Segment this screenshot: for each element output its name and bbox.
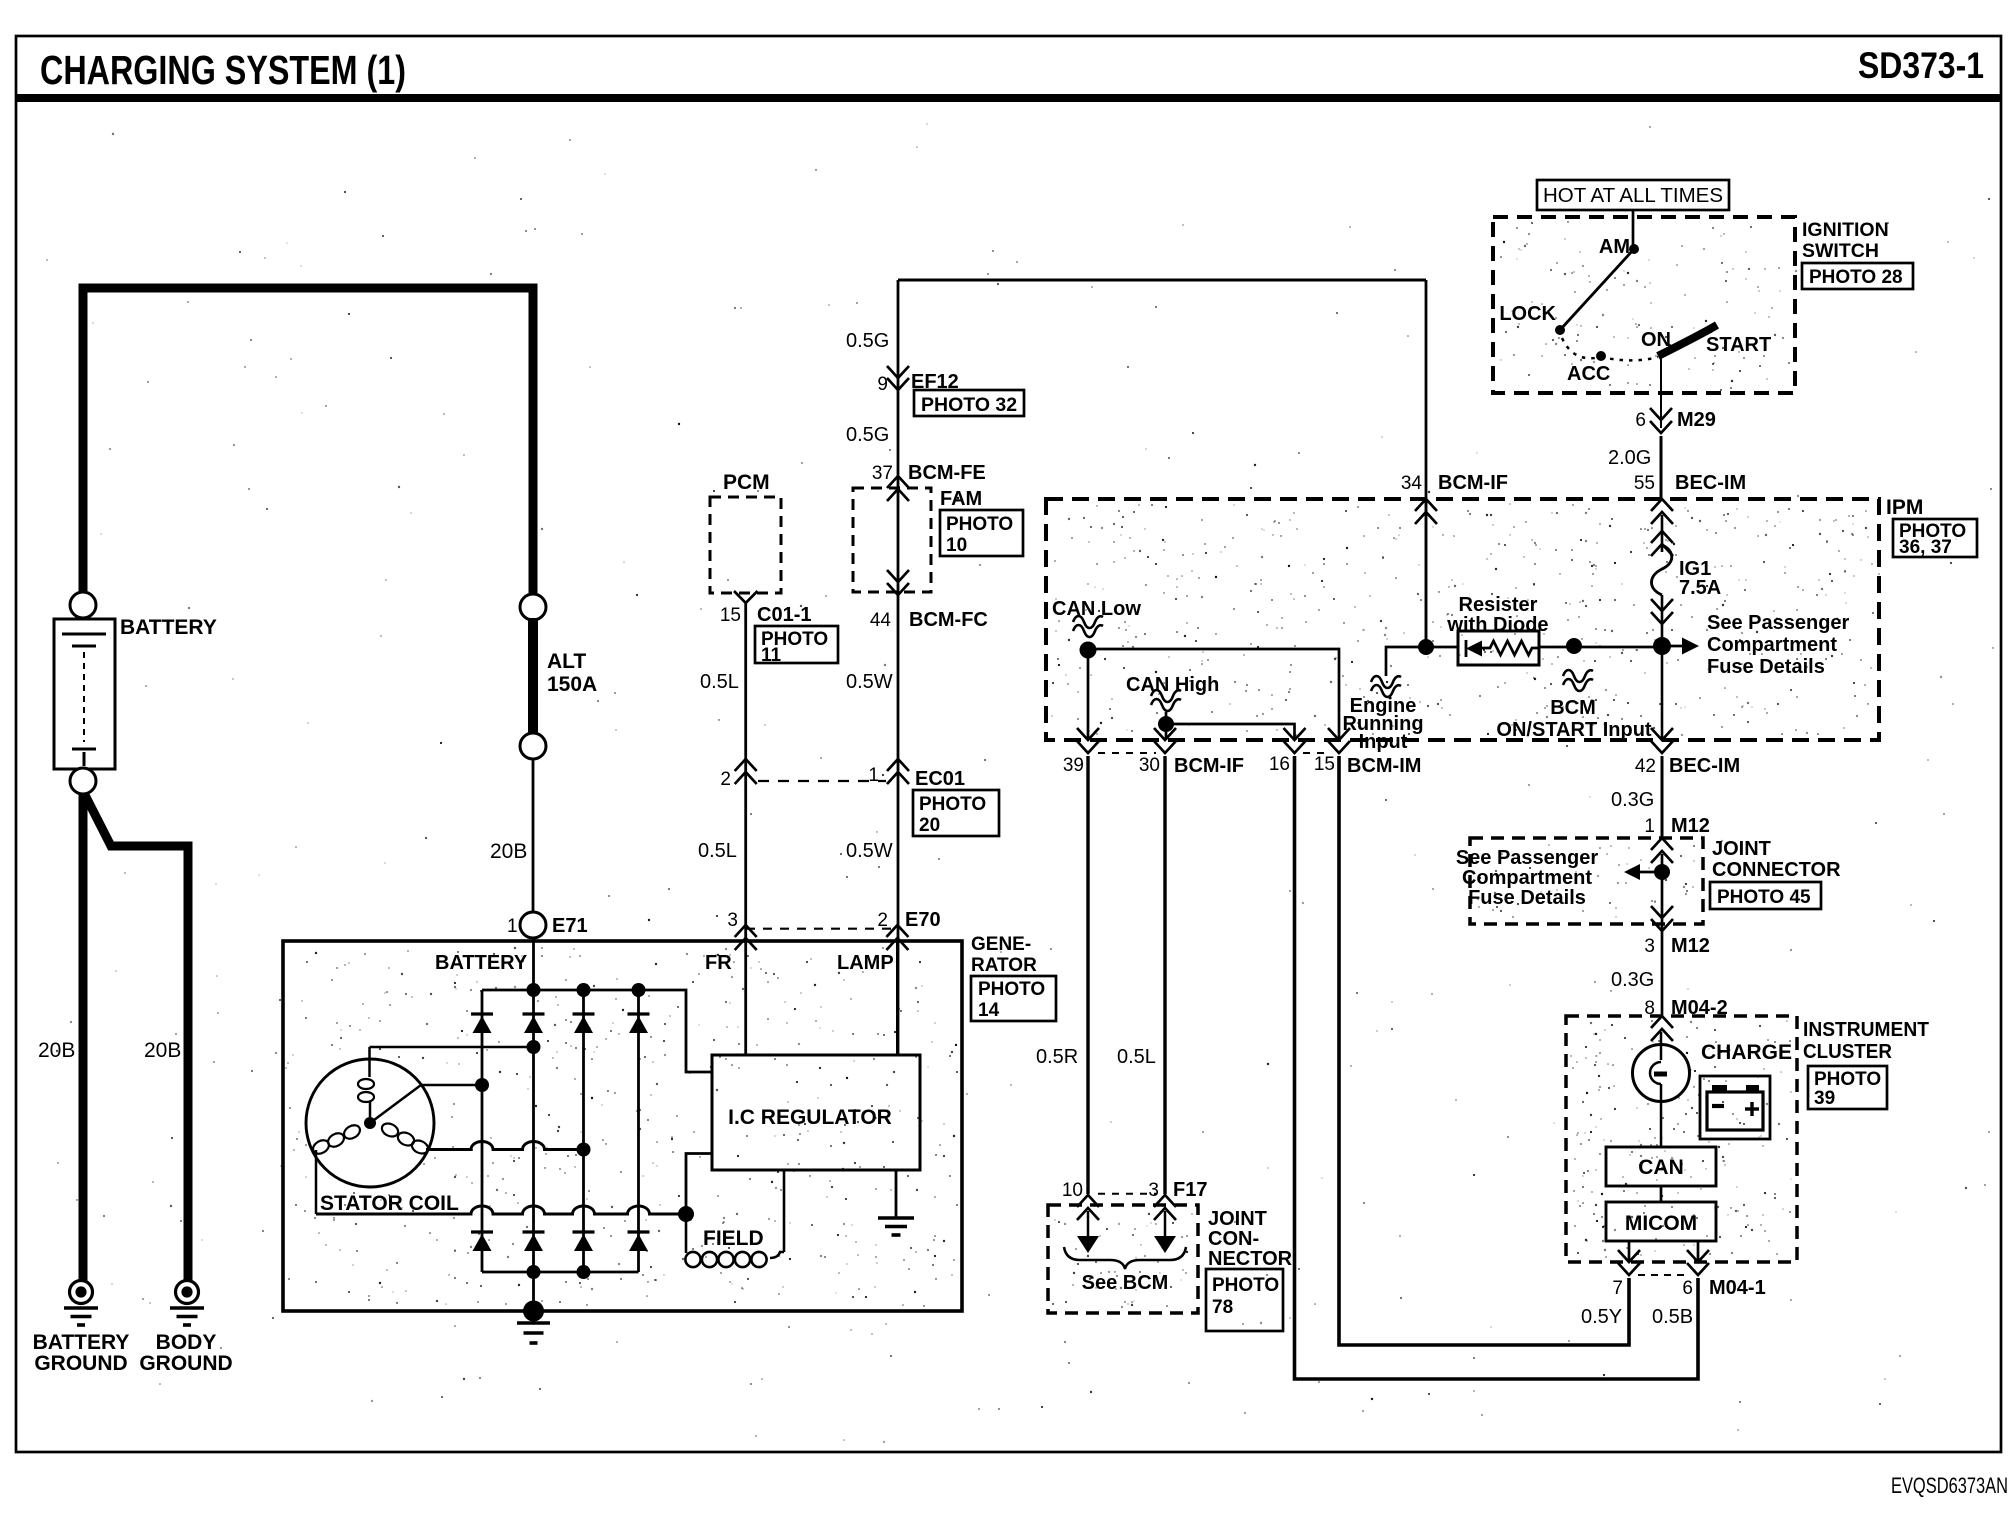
svg-text:FAM: FAM [940,488,982,510]
svg-text:CAN High: CAN High [1126,674,1219,696]
wire CAN High to pin16 [1166,724,1295,740]
svg-text:7.5A: 7.5A [1679,577,1721,599]
power label HOT AT ALL TIMES [1537,180,1729,210]
wire body ground branch [85,795,188,1281]
svg-text:BATTERY: BATTERY [120,616,217,639]
svg-text:0.5W: 0.5W [846,671,893,693]
wire rectifier col1 [481,990,484,1272]
svg-text:START: START [1706,334,1771,356]
inductor FIELD [685,1214,688,1253]
connector IG1 out arrows [1651,599,1673,611]
wire rectifier bottom bus [482,1271,639,1274]
diode D6 [523,1230,545,1233]
wire IG1 to node [1661,595,1664,740]
wire ALT to E71 20B [532,759,535,912]
wire stator phase V [421,1084,482,1087]
connector M04-1 pin6 arrows [1687,1250,1709,1262]
svg-text:6: 6 [1682,1278,1693,1299]
wire 0.5G/0.5W main [897,280,900,1055]
wire CAN Low drop [1087,644,1090,740]
photo box PHOTO 20 [913,790,999,836]
svg-text:ALT: ALT [547,650,586,673]
photo box PHOTO 39 [1808,1066,1887,1109]
wire regulator field sense [686,1154,712,1215]
svg-text:SWITCH: SWITCH [1802,240,1879,262]
svg-text:39: 39 [1814,1088,1835,1109]
wire resistor to node [1539,646,1662,649]
svg-text:CLUSTER: CLUSTER [1803,1041,1893,1063]
arrow see bcm left [1087,1211,1090,1237]
svg-text:C01-1: C01-1 [757,604,811,626]
arrow M12 to fuse details [1640,871,1662,874]
svg-text:BEC-IM: BEC-IM [1675,472,1746,494]
connector EC01 arrows right [887,759,909,771]
junction top bus c2 [527,983,541,997]
arrow see bcm right [1164,1211,1167,1237]
svg-text:M12: M12 [1671,935,1710,957]
connector EC01 arrows left [735,759,757,771]
generator ground junction [523,1301,544,1322]
diode D8 [628,1230,650,1233]
stator neutral dot [364,1117,376,1129]
regulator ground [895,1170,898,1217]
svg-text:0.5B: 0.5B [1652,1306,1693,1328]
svg-text:0.5G: 0.5G [846,424,889,446]
junction bottom bus c2 [527,1265,541,1279]
svg-text:GENE-: GENE- [971,934,1031,955]
svg-text:Fuse Details: Fuse Details [1707,656,1825,678]
svg-text:Fuse Details: Fuse Details [1468,887,1586,909]
svg-text:Compartment: Compartment [1707,634,1837,656]
svg-text:16: 16 [1269,754,1290,775]
photo box PHOTO 32 [914,390,1024,416]
svg-text:7: 7 [1612,1278,1623,1299]
svg-text:3: 3 [727,910,738,931]
svg-text:1: 1 [1644,816,1655,837]
switch arc LOCK-ACC-ON [1562,338,1658,360]
svg-text:CON-: CON- [1208,1228,1259,1250]
connector BCM-IF 34 arrows [1415,499,1437,511]
svg-text:150A: 150A [547,673,597,696]
resistor zigzag [1482,641,1539,655]
wire stator phase U [370,1046,534,1049]
lamp CHARGE [1633,1045,1690,1102]
connector BEC-IM 55 arrows [1651,499,1673,511]
svg-text:CAN Low: CAN Low [1052,598,1141,620]
svg-text:NECTOR: NECTOR [1208,1248,1293,1270]
wire 0.5Y run [1339,756,1629,1345]
svg-text:3: 3 [1148,1180,1159,1201]
svg-text:E71: E71 [552,915,588,937]
svg-text:M12: M12 [1671,815,1710,837]
module INSTRUMENT CLUSTER box [1566,1016,1797,1262]
resistor-with-diode box [1458,631,1539,665]
svg-text:E70: E70 [905,909,941,931]
svg-text:20B: 20B [144,1039,181,1062]
svg-text:30: 30 [1139,755,1160,776]
wire 0.5L drop [1163,756,1166,1194]
wire hot feed [1632,210,1635,247]
diode D4 [628,1012,650,1015]
svg-text:See Passenger: See Passenger [1707,612,1850,634]
dashed link pins 16-15 [1303,752,1330,754]
wire FR internal [744,941,747,1055]
connector M04-1 pin7 arrows [1618,1250,1640,1262]
svg-text:42: 42 [1635,756,1656,777]
battery plate long [62,633,106,636]
stator coil U [368,1047,371,1077]
svg-text:AM: AM [1599,236,1630,258]
connector C01-1 pin 15 V [734,591,758,603]
wire top link [898,279,1426,282]
wire rectifier col4 [637,990,640,1272]
wire stator phase W hops [316,1206,686,1214]
svg-text:BCM: BCM [1550,697,1596,719]
dashed link M04-1 [1638,1274,1689,1276]
photo box PHOTO 11 [755,626,838,663]
svg-text:PHOTO: PHOTO [946,514,1013,535]
svg-text:See Passenger: See Passenger [1456,847,1599,869]
wire battery ground drop [79,794,88,1281]
svg-text:IGNITION: IGNITION [1802,219,1889,241]
svg-text:15: 15 [720,605,741,626]
module IPM box [1046,499,1879,740]
wire MICOM out 7 [1628,1241,1631,1262]
svg-text:BATTERY: BATTERY [33,1331,130,1354]
wire stator phase V diag [370,1085,421,1123]
svg-text:PHOTO 32: PHOTO 32 [921,394,1017,416]
svg-text:9: 9 [877,374,888,395]
net Engine Running Input [1371,676,1401,688]
photo box PHOTO 78 [1206,1269,1283,1331]
wire MICOM out 6 [1697,1241,1700,1262]
svg-text:BODY: BODY [156,1331,217,1354]
block MICOM [1606,1202,1716,1241]
svg-text:M29: M29 [1677,409,1716,431]
svg-text:20: 20 [919,815,940,836]
brace see bcm [1064,1247,1186,1269]
svg-text:BCM-FE: BCM-FE [908,462,986,484]
module PCM box [710,497,781,593]
svg-text:3: 3 [1644,936,1655,957]
svg-text:1: 1 [507,916,518,937]
photo box PHOTO 28 [1802,263,1913,289]
svg-text:78: 78 [1212,1297,1233,1318]
diode D7 [573,1230,595,1233]
svg-text:55: 55 [1634,473,1655,494]
svg-text:FR: FR [705,952,732,974]
svg-text:GROUND: GROUND [34,1352,127,1375]
svg-text:37: 37 [872,463,893,484]
svg-text:GROUND: GROUND [139,1352,232,1375]
node AM [1629,244,1639,254]
joint connector See BCM box [1048,1205,1198,1313]
photo box PHOTO 36 37 [1893,519,1977,557]
svg-text:BCM-FC: BCM-FC [909,609,988,631]
wire 0.5B run [1295,756,1699,1379]
wire IG1 feed [1661,515,1664,552]
arrow to fuse details [1662,645,1682,648]
body ground symbol [176,1281,199,1304]
svg-text:CONNECTOR: CONNECTOR [1712,859,1841,881]
joint connector M12 box [1470,838,1703,924]
wire stator phase W drop [315,1150,318,1214]
svg-text:PCM: PCM [723,471,770,494]
svg-text:CHARGING SYSTEM (1): CHARGING SYSTEM (1) [40,47,406,93]
svg-text:BEC-IM: BEC-IM [1669,755,1740,777]
svg-text:10: 10 [946,535,967,556]
svg-text:2.0G: 2.0G [1608,447,1651,469]
svg-text:36, 37: 36, 37 [1899,537,1952,558]
svg-text:M04-1: M04-1 [1709,1277,1766,1299]
wire CAN to MICOM [1660,1186,1663,1202]
diode D1 [471,1012,493,1015]
svg-text:ACC: ACC [1567,363,1610,385]
svg-text:0.5Y: 0.5Y [1581,1306,1622,1328]
svg-text:15: 15 [1314,754,1335,775]
wire BCM-IF 34 inside [1425,499,1428,647]
wire dashed E70 link [746,928,897,930]
wire 0.5L PCM-to-generator [744,603,747,941]
connector pin30 arrows [1154,728,1176,740]
connector E70 pin3 arrows [735,925,757,937]
junction top bus c3 [577,983,591,997]
connector F17 pin3 arrows [1154,1195,1176,1207]
connector E71 [520,912,546,938]
connector EF12 arrows [887,366,909,378]
svg-text:HOT AT ALL TIMES: HOT AT ALL TIMES [1543,184,1723,207]
svg-text:CHARGE: CHARGE [1701,1041,1792,1064]
wire stator phase V2 hops [426,1142,584,1150]
svg-text:Compartment: Compartment [1462,867,1592,889]
fuse ALT 150A bottom terminal [520,733,546,759]
svg-text:F17: F17 [1173,1179,1207,1201]
connector BCM-FC arrows down [887,570,909,582]
svg-text:0.5L: 0.5L [698,840,737,862]
svg-text:39: 39 [1063,755,1084,776]
stator coil V loops [380,1121,400,1139]
wire 0.5R drop [1086,756,1089,1194]
node LOCK [1555,325,1565,335]
svg-text:with Diode: with Diode [1446,614,1548,636]
battery BATTERY [54,619,115,769]
svg-text:FIELD: FIELD [703,1227,764,1250]
svg-text:34: 34 [1401,473,1423,494]
svg-text:JOINT: JOINT [1208,1208,1267,1230]
wire node to resistor [1426,646,1458,649]
battery center dashed [83,652,85,742]
junction BCM node [1653,637,1671,655]
svg-text:See BCM: See BCM [1082,1272,1169,1294]
op-box I.C REGULATOR [712,1055,920,1170]
svg-text:MICOM: MICOM [1625,1212,1697,1235]
svg-text:ON/START Input: ON/START Input [1496,719,1651,741]
svg-text:LAMP: LAMP [837,952,894,974]
connector M29 arrows [1650,408,1672,420]
wire M12 internal [1661,854,1664,1016]
wire 2.0G [1660,436,1663,499]
svg-text:10: 10 [1062,1180,1083,1201]
generator ground [532,1311,535,1321]
connector BCM-FE arrows up [887,476,909,488]
connector IG1 in arrows [1651,531,1673,543]
dashed link pins 39-30 [1098,752,1156,754]
svg-text:BATTERY: BATTERY [435,952,528,974]
wire dashed EC01 link [758,780,886,782]
fuse ALT 150A body [528,618,538,735]
fuse ALT 150A top terminal [520,594,546,620]
svg-text:LOCK: LOCK [1499,303,1556,325]
svg-text:STATOR COIL: STATOR COIL [320,1192,459,1215]
svg-text:0.3G: 0.3G [1611,789,1654,811]
diode D5 [471,1230,493,1233]
junction field node [678,1206,694,1222]
wire engine running stub [1386,647,1426,676]
wire BEC-IM to M12 [1661,756,1664,838]
wire rectifier col3 [582,990,585,1272]
svg-text:IPM: IPM [1886,496,1923,519]
connector pin16 arrows [1284,728,1306,740]
wire CAN High drop [1165,712,1168,740]
block CAN [1606,1147,1716,1186]
svg-text:PHOTO: PHOTO [978,979,1045,1000]
svg-text:0.5W: 0.5W [846,840,893,862]
switch blade AM-LOCK [1560,249,1634,330]
svg-text:0.5L: 0.5L [700,671,739,693]
fuse IG1 7.5A [1652,545,1672,595]
node ACC [1596,351,1606,361]
svg-text:RATOR: RATOR [971,955,1037,976]
svg-text:0.5R: 0.5R [1036,1046,1078,1068]
svg-text:0.3G: 0.3G [1611,969,1654,991]
wire rectifier top bus [482,990,712,1072]
dashed link F17 [1098,1193,1156,1195]
module FAM box [853,488,931,592]
junction phase V2 [577,1143,591,1157]
battery plate bottom [72,748,96,751]
svg-text:BCM-IF: BCM-IF [1174,755,1244,777]
svg-text:PHOTO: PHOTO [919,794,986,815]
photo box PHOTO 45 [1710,882,1821,909]
svg-text:BCM-IF: BCM-IF [1438,472,1508,494]
battery telltale icon [1700,1076,1770,1139]
title rule [16,94,2001,102]
diode D3 [573,1012,595,1015]
photo box PHOTO 10 [940,510,1023,556]
svg-text:Resister: Resister [1459,594,1538,616]
stator circle [306,1059,434,1187]
junction CAN Low [1080,642,1097,659]
connector M12-3 arrows [1651,906,1673,918]
svg-text:11: 11 [761,645,782,666]
svg-text:INSTRUMENT: INSTRUMENT [1803,1019,1929,1041]
svg-text:20B: 20B [38,1039,75,1062]
svg-text:14: 14 [978,1000,1000,1021]
svg-text:SD373-1: SD373-1 [1858,45,1984,86]
svg-text:CAN: CAN [1638,1156,1684,1179]
wire ignition output [1660,357,1662,428]
svg-text:2: 2 [720,769,731,790]
connector pin15 arrows [1328,728,1350,740]
svg-text:EVQSD6373AN: EVQSD6373AN [1891,1473,2008,1498]
svg-text:PHOTO 45: PHOTO 45 [1717,887,1811,908]
svg-text:6: 6 [1635,410,1646,431]
svg-text:PHOTO 28: PHOTO 28 [1809,267,1903,288]
module IGNITION SWITCH box [1493,217,1795,393]
junction CAN High [1158,716,1174,732]
battery negative terminal [70,768,96,794]
connector pin39 arrows [1077,728,1099,740]
svg-text:44: 44 [870,610,892,631]
battery ground symbol [70,1281,93,1304]
junction phase V [475,1078,489,1092]
svg-text:PHOTO: PHOTO [1814,1069,1881,1090]
connector F17 pin10 arrows [1077,1195,1099,1207]
junction engine-run node [1418,639,1434,655]
wire rectifier col2 [532,938,535,1311]
svg-text:PHOTO: PHOTO [1212,1275,1279,1296]
connector BEC-IM 42 arrows [1651,728,1673,740]
svg-text:0.5L: 0.5L [1117,1046,1156,1068]
svg-text:1: 1 [868,765,879,786]
diode D2 [523,1012,545,1015]
svg-text:0.5G: 0.5G [846,330,889,352]
junction bottom bus c3 [577,1265,591,1279]
svg-text:Input: Input [1359,731,1408,753]
connector M12-1 arrows [1651,838,1673,850]
switch blade ON-START [1658,325,1717,356]
svg-text:20B: 20B [490,840,527,863]
stator coil W loops [342,1123,363,1142]
diode in resistor box [1465,640,1468,657]
svg-text:JOINT: JOINT [1712,838,1771,860]
connector M04-2 arrows [1651,1016,1673,1028]
wire LAMP internal [896,941,899,1055]
junction phase U [527,1040,541,1054]
junction M12 [1654,864,1670,880]
battery positive terminal [70,592,96,618]
battery bottom stub [83,752,86,766]
wire CAN Low to pin15 [1088,649,1339,740]
wire battery-to-ALT thick bus [83,288,533,600]
wire BCM-IF 34 drop [1425,280,1428,647]
svg-text:I.C REGULATOR: I.C REGULATOR [728,1106,892,1129]
svg-text:BCM-IM: BCM-IM [1347,755,1421,777]
junction BCM on/start node [1566,638,1582,654]
svg-text:EC01: EC01 [915,768,965,790]
generator box [283,941,962,1311]
connector E70 pin2 arrows [886,925,908,937]
junction top bus c4 [632,983,646,997]
net BCM ON/START Input [1563,670,1593,682]
photo box PHOTO 14 [971,976,1056,1021]
battery plate short [72,645,96,648]
